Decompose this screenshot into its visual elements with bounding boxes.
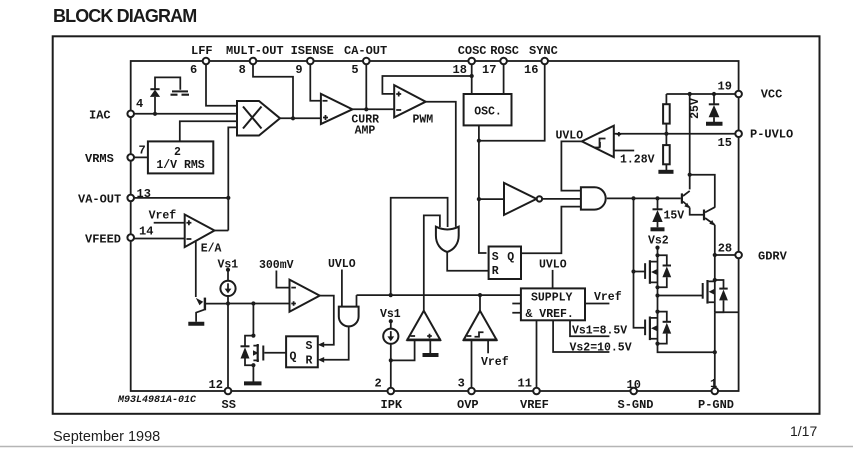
pin P-GND label [698,377,734,412]
wire SS pin riser [227,304,229,392]
junction AND output / 15V zener branch [655,196,659,200]
wire M3 source to right bus [715,311,739,313]
svg-text:7: 7 [139,144,146,158]
wire GDRV pin lead [715,254,739,256]
svg-text:SYNC: SYNC [529,44,558,58]
pin OVP label [457,377,479,413]
pin VA-OUT label [78,187,151,207]
comparator UVLO (hysteresis, points left) [556,126,614,157]
wire IPK comparator output to OR gate [424,215,440,310]
junction CA-OUT node [364,107,368,111]
ground below R2 [658,170,673,174]
svg-text:15V: 15V [664,210,685,223]
wire collector rail to Q2 [690,175,715,208]
wire IPK comparator right input to ground [429,340,431,353]
wire Vs2 output stub [553,320,609,352]
pin circle SYNC 16 [541,58,548,65]
svg-text:Q: Q [507,251,514,264]
pin circle GDRV 28 [735,252,742,259]
svg-text:AMP: AMP [355,124,376,137]
totem gate bus from AND output [634,198,646,327]
current source Vs1 IPK [383,329,398,391]
svg-text:& VREF.: & VREF. [526,308,574,321]
junction VCC rail / driver collector rail [688,92,692,96]
svg-text:8: 8 [239,63,246,77]
svg-text:Vs1: Vs1 [380,308,401,321]
mosfet SS discharge (gate right) [253,344,286,362]
svg-text:ISENSE: ISENSE [291,44,334,58]
block OSC [464,94,512,125]
wire 300mV to comparator minus input [276,271,289,288]
pin VREF label [518,377,549,413]
wire IAC lead to multiplier input 2 [131,113,237,115]
junction AND output / totem gate bus [631,196,635,200]
pin circle S-GND 10 [630,388,637,395]
wire OVP pin riser [471,340,473,391]
pin VFEED label [85,225,153,247]
junction multiplier output / MULT-OUT pin [291,116,295,120]
ground IPK comparator [423,353,439,357]
op-amp E/A error amplifier [185,215,222,256]
pin VRMS label [85,144,146,167]
junction OVP output on bus [478,293,482,297]
svg-text:1.28V: 1.28V [620,154,655,167]
mosfet M3 (output gate driver) with body diode [702,278,728,312]
current mirror gate symbol near IAC clamp [171,91,190,95]
OR gate PWM latch reset (points down) [436,227,459,252]
pin circle ISENSE 9 [307,58,314,65]
junction divider tap [664,132,668,136]
pin MULT-OUT label [226,44,284,77]
wire to ground [252,365,254,381]
wire oscillator output rail down to PWM latch set [479,125,487,253]
wire COSC riser to oscillator [471,61,473,94]
pin circle VA-OUT 13 [127,195,134,202]
wire Vref output stub [585,303,609,305]
wire RMS output to multiplier input 3 [180,121,237,141]
pin CA-OUT label [344,44,387,77]
svg-text:ROSC: ROSC [490,44,519,58]
svg-text:18: 18 [453,63,467,77]
wire driver AND output to Q1 base [607,197,681,199]
svg-text:P-UVLO: P-UVLO [750,128,793,142]
pin circle IPK 2 [388,388,395,395]
wire bus riser to OR gate input [391,198,448,295]
pin circle VREF 11 [533,388,540,395]
pin circle P-UVLO 15 [735,130,742,137]
pin SS label [209,378,236,412]
svg-text:VCC: VCC [761,88,783,102]
arrow into FF2 S input [489,250,495,256]
svg-text:28: 28 [718,242,732,256]
svg-text:LFF: LFF [191,44,213,58]
flip-flop FF2 (PWM latch) [489,247,521,280]
wire VFEED to E/A minus input [131,238,185,240]
svg-text:Vs2: Vs2 [648,235,669,248]
pin S-GND label [618,378,654,412]
pin circle VFEED 14 [127,234,134,241]
junction VA-OUT node [226,196,230,200]
ground SS discharge [244,381,262,385]
transistor Q2 (NPN driver) [703,207,715,225]
arrow into FF1 S input [318,342,324,348]
arrow into FF1 R input [318,357,324,363]
zener SS discharge path [241,336,254,366]
svg-text:17: 17 [482,63,496,77]
outer border frame [53,36,820,414]
svg-text:5: 5 [351,63,358,77]
wire M3 drain rail down to P-GND pin [714,312,716,391]
pin circle COSC 18 [468,58,475,65]
junction osc/sync tap [477,139,481,143]
svg-text:19: 19 [718,80,732,94]
pin SYNC label [524,44,558,77]
wire VA-OUT lead [131,197,229,199]
plus mark UVLO comparator input [617,132,621,136]
wire UVLO label stub to AND gate [341,270,343,307]
wire OVP comparator output riser [479,295,481,311]
junction P-GND rail [713,350,717,354]
wire soft start node to comparator [228,303,290,305]
transistor PNP soft start clamp [188,298,228,324]
mosfet M2 (lower driver) with body diode [644,310,671,346]
wire bus corner into AND gate right input [356,295,358,307]
wire UVLO comparator output to driver AND gate [561,141,582,190]
pin circle VCC 19 [735,91,742,98]
svg-text:14: 14 [139,225,153,239]
comparator 300mV soft start [290,280,320,312]
wire VRMS lead to 1/V RMS block [131,156,148,158]
svg-text:IPK: IPK [381,398,403,412]
svg-text:S: S [492,251,499,264]
svg-text:P-GND: P-GND [698,398,734,412]
wire Vs1 output stub [570,320,609,336]
svg-text:PWM: PWM [413,113,434,126]
svg-text:COSC: COSC [458,44,487,58]
supply label Vs2 with terminal dot [648,235,669,256]
zener 15V gate clamp [651,198,685,229]
pin circle SS 12 [225,388,232,395]
junction midpoint to output gate [655,293,659,297]
footer separator gray line [0,446,853,448]
wire UVLO comparator minus stub 1.28V [614,150,634,152]
IC boundary bus ring [131,61,739,391]
pin circle VRMS 7 [127,154,134,161]
multiplier X block [237,101,280,136]
internal bus OVP/UVLO line [357,294,521,296]
comparator PWM [394,85,433,126]
svg-text:S-GND: S-GND [618,398,654,412]
pin circle ROSC 17 [500,58,507,65]
zener 25V to VCC rail [689,94,723,124]
wire 300mV comparator output to latch set [320,296,334,345]
svg-text:Vref: Vref [149,210,177,223]
wire PWM output down to OR gate [426,102,456,227]
svg-text:OVP: OVP [457,398,479,412]
wire ISENSE riser to current amp inverting input [310,61,321,101]
svg-text:September 1998: September 1998 [53,429,160,445]
svg-text:Vref: Vref [594,291,622,304]
wire multiplier output to current amp [280,117,321,119]
svg-text:VREF: VREF [520,398,549,412]
pin ISENSE label [291,44,334,77]
inverter buffer after oscillator [479,183,581,215]
wire current amp output to PWM [352,108,394,110]
wire UVLO stub from supply block [552,270,554,289]
svg-text:CA-OUT: CA-OUT [344,44,387,58]
flip-flop FF1 (soft start latch) [286,336,318,367]
wire midpoint to output mosfet gate [658,295,703,297]
wire MULT-OUT jog to multiplier output node [253,61,293,118]
svg-text:IAC: IAC [89,109,111,123]
wire error amp output riser to multiplier input 4 [228,127,237,230]
pin COSC label [453,44,487,77]
supply label Vs1 with terminal dot (soft start source) [218,259,239,282]
pin circle P-GND 1 [712,388,719,395]
wire P-UVLO line / divider tap to UVLO comparator plus input [614,133,739,135]
junction SS discharge branch [251,301,255,305]
pin IAC label [89,97,143,123]
wire COSC ramp to PWM non-inverting input [382,76,471,94]
wire CA-OUT riser [365,61,367,109]
wire E/A output riser to VA-OUT node [215,230,229,232]
svg-text:6: 6 [190,63,197,77]
wire FF2 Q output to AND gate input [521,207,581,254]
comparator OVP (points up, hysteresis) [463,311,497,341]
svg-text:16: 16 [524,63,538,77]
svg-text:MULT-OUT: MULT-OUT [226,44,284,58]
pin circle LFF 6 [203,58,210,65]
wire ROSC riser to oscillator [503,61,505,94]
junction IPK node [389,358,393,362]
svg-text:R: R [306,355,313,368]
diode IAC clamp (bar + filled triangle) [150,77,180,113]
AND gate soft start reset (points down) [339,307,359,327]
svg-text:E/A: E/A [201,243,222,256]
block SUPPLY & VREF [512,288,585,321]
op-amp CURR AMP [321,94,379,137]
wire AND output to FF1 R input [323,326,349,359]
pin circle CA-OUT 5 [363,58,370,65]
svg-text:1/V RMS: 1/V RMS [156,159,204,172]
junction discharge node [251,334,255,338]
wire OR output to FF2 R input [447,252,490,271]
svg-text:M93L4981A-01C: M93L4981A-01C [117,395,196,406]
pin LFF label [190,44,213,77]
junction bus to OR riser [389,293,393,297]
svg-text:13: 13 [137,187,151,201]
junction soft start node [226,301,230,305]
svg-text:2: 2 [375,377,382,391]
wire OVP comparator Vref stub [487,340,489,354]
svg-text:Q: Q [290,351,297,364]
pin GDRV label [718,242,788,264]
wire VCC top rail [666,93,738,95]
wire Vref to E/A plus input [154,222,185,224]
svg-text:9: 9 [295,63,302,77]
pin P-UVLO label [718,128,794,151]
svg-text:S: S [306,340,313,353]
junction VCC rail / 25V zener [712,92,716,96]
pin circle OVP 3 [468,388,475,395]
wire E/A to PNP emitter [195,241,197,297]
svg-text:UVLO: UVLO [539,258,567,271]
junction discharge source node [251,363,255,367]
mosfet M1 (upper driver) with body diode [644,253,671,289]
transistor Q1 (NPN driver) [681,191,704,215]
junction IAC clamp node [153,112,157,116]
svg-text:Vs1=8.5V: Vs1=8.5V [572,325,627,338]
comparator IPK (points up) [407,311,442,341]
wire IPK node to comparator input [391,340,415,361]
svg-text:11: 11 [518,377,532,391]
svg-text:Vs2=10.5V: Vs2=10.5V [570,341,632,354]
wire VREF pin riser [536,320,538,391]
pin ROSC label [482,44,519,77]
junction osc/inverter tap [477,197,481,201]
svg-text:GDRV: GDRV [758,250,788,264]
svg-text:2: 2 [174,146,181,159]
current source Vs1 soft start [220,281,235,304]
svg-text:UVLO: UVLO [328,258,356,271]
svg-text:12: 12 [209,378,223,392]
pin circle MULT-OUT 8 [250,58,257,65]
svg-text:3: 3 [458,377,465,391]
svg-text:300mV: 300mV [259,259,294,272]
wire upper gate lead [634,271,646,273]
wire M2 source to P-GND rail [658,344,715,353]
svg-text:1/17: 1/17 [790,423,817,439]
pin IPK label [375,377,403,413]
svg-text:25V: 25V [689,98,702,119]
svg-text:15: 15 [718,136,732,150]
wire driver collector rail [689,94,691,189]
svg-text:R: R [492,265,499,278]
arrow into FF2 R input [489,268,495,274]
svg-text:4: 4 [136,97,143,111]
junction totem upper gate [631,269,635,273]
svg-text:SS: SS [222,398,236,412]
resistor R1 (upper divider) [663,94,670,134]
block 2 1/V RMS [148,141,213,173]
wire Q2 emitter rail down to gate drive node [714,225,716,312]
junction collector rail split [688,173,692,177]
AND gate driver logic [581,187,606,209]
svg-text:VRMS: VRMS [85,152,114,166]
wire LFF riser to multiplier input 1 [206,61,237,106]
junction GDRV node [713,253,717,257]
svg-text:VFEED: VFEED [85,233,121,247]
svg-text:OSC.: OSC. [474,106,502,119]
svg-text:SUPPLY: SUPPLY [531,291,573,304]
svg-text:VA-OUT: VA-OUT [78,193,121,207]
wire SS discharge rail [252,304,254,336]
pin VCC label [718,80,783,102]
wire totem midpoint rail [657,287,659,311]
svg-text:BLOCK DIAGRAM: BLOCK DIAGRAM [53,6,196,26]
supply label Vs1 with terminal dot (IPK source) [380,308,401,329]
pin circle IAC 4 [127,111,134,118]
wire SYNC riser to oscillator output line [479,61,545,141]
junction COSC/PWM tap [470,74,474,78]
resistor R2 (lower divider) [663,134,670,171]
svg-text:Vref: Vref [481,356,509,369]
